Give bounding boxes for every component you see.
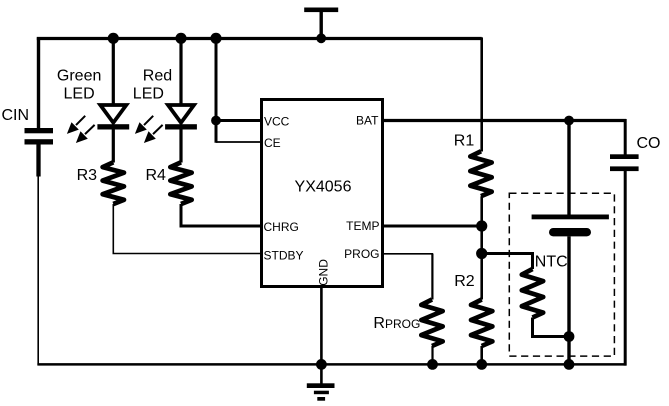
wire red LED anode (179, 38, 182, 106)
svg-text:R1: R1 (454, 133, 475, 150)
svg-text:PROG: PROG (344, 247, 379, 261)
node junction battery / bottom rail (564, 359, 575, 370)
resistor R2 (471, 300, 492, 347)
wire left rail lower (37, 176, 39, 365)
node junction GND / bottom rail (316, 359, 327, 370)
svg-text:LED: LED (133, 86, 164, 103)
svg-text:STDBY: STDBY (264, 248, 304, 262)
thermistor NTC (522, 269, 543, 318)
svg-text:RPROG: RPROG (373, 315, 420, 332)
node junction R2 / bottom rail (476, 359, 487, 370)
node junction NTC branch (476, 248, 487, 259)
capacitor CO (610, 119, 639, 366)
node junction VCC branch (211, 116, 221, 126)
svg-text:Red: Red (143, 67, 172, 84)
LED D2 Red (135, 105, 197, 143)
svg-text:GND: GND (317, 259, 331, 286)
wire battery positive (567, 121, 570, 216)
svg-text:R4: R4 (146, 167, 167, 184)
wire green LED anode (112, 38, 115, 106)
LED D1 Green (67, 105, 129, 143)
svg-text:Green: Green (57, 67, 101, 84)
wire NTC to battery negative (533, 318, 570, 337)
resistor R1 (470, 151, 491, 196)
power symbol (supply bar) (304, 8, 338, 39)
svg-text:VCC: VCC (264, 114, 290, 128)
wire to CE pin (216, 141, 261, 143)
wire NTC branch (482, 254, 533, 270)
wire TEMP pin (383, 225, 483, 228)
svg-text:TEMP: TEMP (346, 219, 379, 233)
wire BAT net (383, 119, 627, 122)
wire R3 to STDBY (113, 204, 261, 254)
wire PROG pin to RPROG (383, 253, 434, 255)
wire to VCC pin (216, 119, 261, 122)
resistor R4 (170, 162, 191, 204)
wire R2 to bottom rail (480, 346, 483, 364)
wire GND stem (320, 286, 323, 384)
wire RPROG to bottom rail (431, 346, 433, 364)
battery BT1 (532, 215, 609, 237)
dashed battery pack outline (509, 193, 614, 356)
svg-text:R3: R3 (77, 167, 98, 184)
svg-text:BAT: BAT (356, 114, 379, 128)
node junction red LED / top rail (175, 33, 186, 44)
node junction TEMP (476, 220, 487, 231)
svg-text:CO: CO (637, 135, 661, 152)
svg-text:YX4056: YX4056 (295, 178, 352, 195)
wire VCC/CE branch (215, 38, 218, 143)
wire R1 branch from top rail (480, 37, 483, 151)
wire red LED cathode (179, 129, 182, 162)
wire green LED cathode (112, 129, 115, 162)
wire top rail (37, 37, 482, 40)
node junction NTC / battery (564, 331, 575, 342)
wire bottom rail (37, 363, 626, 366)
node junction VCC branch / top rail (210, 33, 221, 44)
svg-text:CE: CE (264, 136, 281, 150)
node junction power stem / top rail (316, 33, 326, 43)
IC U1 YX4056 body (262, 100, 383, 287)
svg-text:CHRG: CHRG (264, 220, 299, 234)
resistor R3 (103, 162, 124, 204)
wire R4 to CHRG (181, 204, 261, 226)
wire battery negative (567, 236, 570, 364)
svg-text:R2: R2 (454, 273, 475, 290)
svg-text:CIN: CIN (2, 107, 30, 124)
resistor RPROG (421, 300, 442, 347)
svg-text:LED: LED (64, 86, 95, 103)
node junction green LED / top rail (108, 33, 119, 44)
wire R1 to R2 (480, 196, 483, 299)
node junction BAT / battery (564, 116, 574, 126)
capacitor CIN (25, 128, 54, 177)
wire left rail upper (37, 37, 40, 128)
ground (307, 383, 335, 400)
node junction RPROG / bottom rail (427, 359, 438, 370)
svg-text:NTC: NTC (535, 254, 568, 271)
